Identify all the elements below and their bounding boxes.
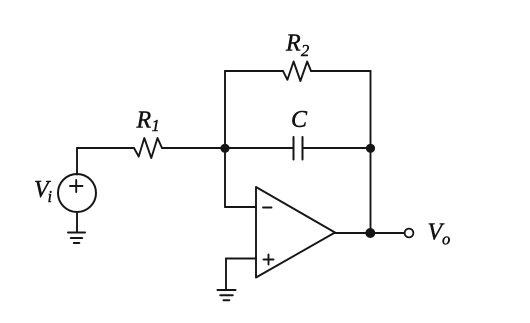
label Vi <box>34 177 53 206</box>
label R1 <box>136 108 160 136</box>
label Vo <box>428 220 451 249</box>
node B (output net top junction) <box>366 144 375 153</box>
wire: feedback left vertical up <box>224 71 226 148</box>
ground (below Vi) <box>68 233 85 244</box>
wire: feedback right vertical down <box>370 71 372 148</box>
wire: input horizontal from source top corner to R1 <box>77 147 134 149</box>
node C (output junction) <box>365 228 375 238</box>
node A (inverting input junction) <box>220 144 229 153</box>
op-amp U1 <box>256 187 335 278</box>
wire: feedback top left horizontal <box>225 70 283 72</box>
label C <box>291 107 308 133</box>
wire: R1 to capacitor (through node A) <box>162 147 294 149</box>
minus pin mark <box>263 207 272 209</box>
svg-text:R: R <box>285 31 301 57</box>
label R2 <box>285 31 309 61</box>
svg-text:i: i <box>48 187 53 206</box>
wire: non-inverting input vertical to ground <box>225 259 227 291</box>
svg-text:2: 2 <box>301 41 309 60</box>
wire: feedback top right horizontal <box>311 70 371 72</box>
wire: source top vertical <box>76 148 78 175</box>
terminal Vo (open circle) <box>405 229 414 238</box>
resistor R2 <box>283 62 311 82</box>
svg-text:o: o <box>442 230 450 249</box>
wire: source bottom vertical <box>76 212 78 233</box>
wire: op-amp output to terminal <box>335 232 405 234</box>
plus pin mark <box>264 255 274 265</box>
svg-text:R: R <box>136 108 152 134</box>
wire: output net vertical <box>370 148 372 233</box>
svg-text:C: C <box>291 107 308 133</box>
wire: inverting input horizontal into op-amp <box>225 206 256 208</box>
wire: capacitor to node B <box>303 147 371 149</box>
capacitor C <box>294 137 303 160</box>
wire: inverting input vertical drop from node A <box>224 148 226 207</box>
source Vi <box>58 174 96 212</box>
resistor R1 <box>134 138 162 158</box>
svg-text:1: 1 <box>152 116 160 135</box>
wire: non-inverting input horizontal <box>226 258 256 260</box>
ground (op-amp non-inverting input) <box>218 290 236 300</box>
